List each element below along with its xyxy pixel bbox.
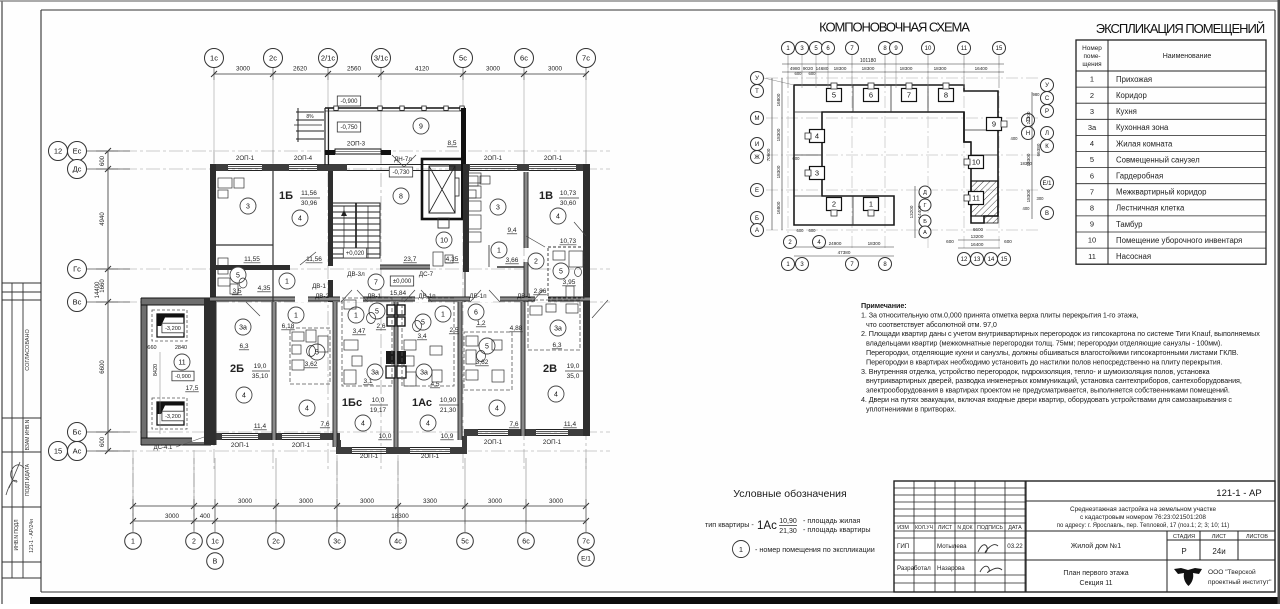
grid bubble 7с bottom (585, 513, 587, 532)
left stamp strip (2, 283, 41, 578)
svg-text:11: 11 (1088, 252, 1096, 261)
svg-text:Р: Р (1181, 547, 1186, 556)
tank 1 (152, 310, 187, 341)
grid axis lines (100, 150, 610, 530)
svg-text:03.22: 03.22 (1007, 543, 1023, 550)
mid wall Вс (horizontal) (210, 297, 340, 301)
table row 3 Кухня (1076, 118, 1266, 120)
svg-text:- площадь квартиры: - площадь квартиры (803, 525, 871, 534)
svg-text:Примечание:: Примечание: (861, 301, 907, 310)
svg-text:2В: 2В (543, 363, 557, 375)
bubble В (1041, 207, 1054, 220)
svg-text:13: 13 (974, 257, 981, 263)
room circle 5 (369, 303, 385, 319)
svg-text:Д: Д (923, 190, 927, 196)
svg-text:8: 8 (399, 194, 403, 201)
svg-text:5: 5 (832, 91, 836, 100)
svg-text:1: 1 (869, 200, 873, 209)
svg-text:1с: 1с (211, 539, 219, 546)
svg-text:3/1с: 3/1с (374, 54, 388, 63)
grid bubble 2с bottom (275, 513, 277, 532)
bubble 8 (879, 258, 892, 271)
bubble 1 (782, 258, 795, 271)
svg-text:ДАТА: ДАТА (1008, 525, 1022, 531)
svg-text:6: 6 (1090, 171, 1094, 180)
grid bubble 1с bottom (214, 513, 216, 532)
svg-text:Е: Е (755, 188, 759, 194)
bubble 14 (985, 253, 998, 266)
svg-text:9: 9 (992, 120, 996, 129)
svg-text:Ж: Ж (754, 155, 760, 161)
svg-text:18300: 18300 (776, 128, 781, 141)
table row 1 Прихожая (1076, 86, 1266, 88)
bubble С (1041, 92, 1054, 105)
svg-text:660: 660 (147, 345, 156, 351)
bubble 6 (822, 42, 835, 55)
level box -3,200 (lower) (162, 411, 184, 421)
bubble Б (751, 212, 764, 225)
bubble 4 (813, 236, 826, 249)
svg-text:2ОП-1: 2ОП-1 (544, 155, 563, 162)
table row 9 Тамбур (1076, 231, 1266, 233)
bubble 7 (846, 258, 859, 271)
grid bubble 5с top (454, 49, 473, 68)
svg-text:10,73: 10,73 (560, 238, 577, 245)
svg-text:Р: Р (1045, 109, 1049, 115)
bubble Е/1 (578, 550, 595, 567)
svg-text:3,95: 3,95 (563, 279, 576, 286)
bubble 1 (782, 42, 795, 55)
tank 2 (152, 398, 187, 429)
room circle 3 (490, 199, 506, 215)
svg-text:4: 4 (305, 406, 309, 413)
bubble Е/1 (1041, 177, 1054, 190)
svg-text:А: А (923, 230, 927, 236)
svg-text:15,84: 15,84 (390, 290, 407, 297)
table row 6 Гардеробная (1076, 183, 1266, 185)
left dimension chains (95, 148, 118, 454)
svg-text:10,0: 10,0 (379, 433, 392, 440)
svg-text:ПОДП.ИДАТА: ПОДП.ИДАТА (25, 463, 31, 496)
party wall at 3с (333, 302, 337, 447)
key plan section 2 (827, 198, 842, 211)
svg-text:1: 1 (497, 248, 501, 255)
svg-text:Гардеробная: Гардеробная (1116, 171, 1163, 180)
svg-text:2ОП-4: 2ОП-4 (294, 155, 313, 162)
svg-text:ЛИСТ: ЛИСТ (1212, 534, 1227, 540)
svg-text:18300: 18300 (776, 165, 781, 178)
key plan inner lines (794, 85, 998, 225)
svg-text:2ОП-1: 2ОП-1 (292, 442, 311, 449)
svg-text:Кухонная зона: Кухонная зона (1116, 123, 1169, 132)
elevator shaft (422, 159, 464, 219)
bubble И (751, 138, 764, 151)
svg-text:4: 4 (495, 406, 499, 413)
svg-text:18300: 18300 (391, 513, 409, 520)
svg-text:А: А (755, 228, 759, 234)
grid bubble 3с bottom (336, 513, 338, 532)
svg-text:17,5: 17,5 (186, 385, 199, 392)
top dimension chain (211, 66, 589, 164)
level box -0.900 (337, 96, 360, 106)
svg-text:ИЗМ: ИЗМ (897, 525, 909, 531)
svg-text:2ОП-1: 2ОП-1 (484, 155, 503, 162)
grid bubble 4с bottom (397, 513, 399, 532)
room circle 4 (355, 415, 371, 431)
duct/stove blocks at party wall 1Бс/1Ас (386, 305, 406, 378)
door swing lines (246, 222, 608, 318)
svg-text:14400: 14400 (95, 281, 101, 298)
room circle 3а (235, 319, 251, 335)
party wall apt3/1В (524, 172, 528, 248)
key plan section 6 (864, 89, 879, 102)
svg-text:ЭКСПЛИКАЦИЯ ПОМЕЩЕНИЙ: ЭКСПЛИКАЦИЯ ПОМЕЩЕНИЙ (1096, 21, 1265, 36)
level box -3,200 (upper) (162, 323, 184, 333)
grid bubble 6с bottom (525, 513, 527, 532)
svg-text:Кухня: Кухня (1116, 107, 1137, 116)
interior partition walls (210, 164, 590, 447)
svg-text:Н: Н (1026, 131, 1030, 137)
svg-text:47380: 47380 (838, 250, 851, 255)
svg-text:М: М (755, 116, 760, 122)
svg-text:8%: 8% (306, 114, 314, 120)
svg-text:6600: 6600 (100, 360, 106, 374)
svg-text:3с: 3с (333, 539, 341, 546)
party wall 1Бс/1Ас (394, 302, 398, 447)
room circle 5 (415, 314, 431, 330)
svg-text:±0,000: ±0,000 (393, 279, 412, 285)
svg-text:7: 7 (374, 280, 378, 287)
svg-text:2/1с: 2/1с (321, 54, 335, 63)
svg-text:-0,900: -0,900 (340, 99, 358, 105)
svg-text:3000: 3000 (488, 498, 503, 505)
small ticks on sections (805, 83, 1007, 216)
svg-text:5: 5 (1090, 155, 1094, 164)
svg-text:5с: 5с (459, 54, 467, 63)
table row 2 Коридор (1076, 102, 1266, 104)
svg-text:4,35: 4,35 (446, 256, 459, 263)
left annex block (pump room) (141, 298, 211, 451)
tambour south wall with window 2ОП-3 (325, 150, 335, 155)
svg-text:3000: 3000 (360, 498, 375, 505)
bubble А (751, 224, 764, 237)
bubble 13 (971, 253, 984, 266)
svg-text:Перегородки, отделяющие кухни: Перегородки, отделяющие кухни и санузлы,… (866, 348, 1239, 357)
room circle 3а (367, 364, 383, 380)
svg-text:-3,200: -3,200 (165, 326, 181, 332)
bubble 5 (810, 42, 823, 55)
svg-text:7с: 7с (582, 54, 590, 63)
svg-text:19,0: 19,0 (567, 363, 580, 370)
wall right of stair hall (463, 164, 469, 272)
svg-text:10: 10 (1088, 236, 1096, 245)
svg-text:101180: 101180 (860, 58, 877, 64)
room circle 4 (548, 386, 564, 402)
svg-text:1Ас: 1Ас (757, 520, 777, 532)
right part (1026, 501, 1275, 592)
svg-text:2ОП-1: 2ОП-1 (236, 155, 255, 162)
key plan left dim chain (771, 78, 773, 230)
key plan section 9 (987, 118, 1002, 131)
grid bubble 1 bottom (132, 513, 134, 532)
top exterior wall with windows (210, 164, 590, 166)
svg-text:Прихожая: Прихожая (1116, 75, 1152, 84)
bubble У (1041, 79, 1054, 92)
svg-text:- номер помещения по экспликац: - номер помещения по экспликации (755, 545, 875, 554)
key plan section 4 (810, 130, 825, 143)
svg-text:3000: 3000 (165, 513, 180, 520)
svg-text:Среднеэтажная застройка на зем: Среднеэтажная застройка на земельном уча… (1070, 505, 1216, 513)
svg-text:2: 2 (534, 259, 538, 266)
key plan section 5 (827, 89, 842, 102)
svg-text:ДВ-3л: ДВ-3л (347, 271, 365, 278)
room circle 5 (309, 344, 325, 360)
svg-text:8420: 8420 (153, 364, 159, 376)
level box -0.750 (337, 122, 360, 132)
svg-text:-3,200: -3,200 (165, 414, 181, 420)
svg-text:Назарова: Назарова (937, 565, 965, 572)
1Б interior walls (216, 244, 273, 246)
room circle 4 (292, 210, 308, 226)
svg-text:2. Площади квартир даны с учет: 2. Площади квартир даны с учетом внутрик… (861, 329, 1260, 338)
svg-text:18300: 18300 (900, 66, 913, 71)
svg-text:18300: 18300 (934, 66, 947, 71)
svg-text:3,4: 3,4 (417, 333, 426, 340)
svg-text:3: 3 (496, 205, 500, 212)
svg-text:внутриквартирных дверей, разво: внутриквартирных дверей, разводка инжене… (866, 376, 1242, 385)
title block (894, 481, 1275, 592)
svg-text:2,6: 2,6 (376, 323, 385, 330)
key plan bottom dims (794, 246, 894, 248)
svg-text:3000: 3000 (236, 66, 251, 73)
tambour left wall (324, 108, 326, 165)
svg-text:С: С (1045, 96, 1050, 102)
svg-text:В: В (1045, 211, 1049, 217)
svg-text:Совмещенный санузел: Совмещенный санузел (1116, 155, 1200, 164)
bubble 3 (796, 42, 809, 55)
svg-text:Л: Л (1045, 131, 1049, 137)
exterior walls (204, 164, 590, 454)
svg-text:Номер: Номер (1082, 45, 1102, 52)
table row 4 Жилая комната (1076, 151, 1266, 153)
level box -0,900 (172, 371, 194, 381)
plumbing/kitchen fixtures (218, 173, 583, 386)
svg-text:600: 600 (946, 239, 954, 244)
svg-text:600: 600 (809, 71, 817, 76)
svg-text:600: 600 (793, 156, 801, 161)
landing level box +0.020 (343, 248, 366, 258)
svg-text:4,88: 4,88 (510, 325, 523, 332)
svg-text:Т: Т (755, 89, 759, 95)
party wall at 6с (521, 302, 525, 436)
table row 7 Межквартирный коридор (1076, 199, 1266, 201)
svg-text:10,90: 10,90 (779, 518, 797, 525)
svg-text:2: 2 (1090, 91, 1094, 100)
svg-text:уплотнениями в притворах.: уплотнениями в притворах. (866, 404, 956, 413)
svg-text:19,17: 19,17 (370, 407, 387, 414)
svg-text:+0,020: +0,020 (346, 251, 365, 257)
svg-text:16800: 16800 (776, 201, 781, 214)
right exterior wall (583, 164, 590, 436)
svg-text:2ОП-1: 2ОП-1 (231, 442, 250, 449)
svg-text:с кадастровым номером 76:23:02: с кадастровым номером 76:23:021501:208 (1080, 514, 1206, 521)
svg-text:Бс: Бс (73, 428, 82, 437)
svg-text:3,66: 3,66 (506, 257, 519, 264)
svg-text:400: 400 (200, 513, 211, 520)
svg-text:300: 300 (1037, 196, 1045, 201)
svg-text:ГИП: ГИП (897, 543, 909, 550)
svg-text:по адресу: г. Ярославль, пер.: по адресу: г. Ярославль, пер. Тепловой, … (1057, 522, 1230, 529)
svg-text:3а: 3а (420, 370, 428, 377)
bottom exterior wall right part (464, 429, 590, 431)
svg-text:3а: 3а (371, 370, 379, 377)
svg-text:15: 15 (1001, 257, 1008, 263)
svg-text:8: 8 (1090, 203, 1094, 212)
svg-text:3: 3 (246, 204, 250, 211)
svg-text:6,3: 6,3 (239, 343, 248, 350)
room circle 1 (279, 273, 295, 289)
bubble П (1022, 114, 1035, 127)
room circle 4 (550, 208, 566, 224)
grid bubble 1с top (205, 49, 224, 68)
entrance tambour block (294, 96, 466, 218)
key plan courtyard bubbles Д Г Б А (919, 186, 931, 198)
svg-text:11,4: 11,4 (564, 421, 577, 428)
svg-text:30,96: 30,96 (301, 200, 318, 207)
corridor door gaps (295, 296, 308, 302)
svg-text:Жилой дом №1: Жилой дом №1 (1071, 542, 1122, 550)
svg-text:18300: 18300 (1026, 189, 1031, 202)
svg-text:18300: 18300 (868, 241, 881, 246)
svg-text:3. Внутренняя отделка, устройс: 3. Внутренняя отделка, устройство перего… (861, 367, 1210, 376)
svg-text:3300: 3300 (423, 498, 438, 505)
table row 8 Лестничная клетка (1076, 215, 1266, 217)
svg-text:11: 11 (961, 46, 968, 52)
notes block (861, 301, 1260, 413)
svg-text:ДВ-2: ДВ-2 (315, 293, 329, 300)
room circle 11 (174, 354, 190, 370)
svg-text:1Бс: 1Бс (342, 397, 362, 409)
bubble К (1041, 140, 1054, 153)
bubble 15 (993, 42, 1006, 55)
svg-text:2ОП-1: 2ОП-1 (543, 439, 562, 446)
svg-text:7,6: 7,6 (320, 421, 329, 428)
bubble 8 (879, 42, 892, 55)
svg-text:ДВ-1: ДВ-1 (517, 293, 531, 300)
svg-text:4: 4 (242, 393, 246, 400)
room circle 2 (528, 253, 544, 269)
grid bubble 3/1с top (372, 49, 391, 68)
svg-text:24и: 24и (1212, 547, 1225, 556)
room circle 10 (436, 232, 452, 248)
svg-text:1. За относительную отм.0,000: 1. За относительную отм.0,000 принята от… (861, 310, 1138, 319)
svg-text:поме-: поме- (1083, 53, 1100, 60)
annex hatched walls (141, 298, 211, 305)
room circle 1 (348, 307, 364, 323)
stamp signature (6, 462, 24, 495)
room circle 9 (tambour) (413, 118, 429, 134)
bottom sheet shadow bar (30, 597, 1280, 604)
svg-text:3,47: 3,47 (353, 328, 366, 335)
svg-text:Ес: Ес (73, 147, 82, 156)
bubble Л (1041, 127, 1054, 140)
svg-text:10,90: 10,90 (440, 397, 457, 404)
svg-text:ДВ-1: ДВ-1 (312, 283, 326, 290)
svg-text:тип квартиры -: тип квартиры - (705, 520, 754, 529)
svg-text:5с: 5с (461, 539, 469, 546)
party wall 1Б/stair (328, 171, 333, 266)
room circle 5 (553, 263, 569, 279)
svg-text:Е/1: Е/1 (581, 555, 591, 562)
bubble В (207, 553, 224, 570)
svg-text:12: 12 (54, 147, 62, 156)
svg-text:4: 4 (554, 392, 558, 399)
svg-text:1: 1 (131, 539, 135, 546)
svg-text:Коридор: Коридор (1116, 91, 1147, 100)
room circle 3а (416, 364, 432, 380)
svg-text:-0,750: -0,750 (340, 125, 358, 131)
room circle 5 (230, 267, 246, 283)
svg-text:Помещение уборочного инвентаря: Помещение уборочного инвентаря (1116, 236, 1242, 245)
bubble У (751, 72, 764, 85)
svg-text:К: К (1045, 144, 1049, 150)
room circle 3а (550, 320, 566, 336)
svg-text:Вс: Вс (73, 298, 82, 307)
floor plan group (49, 49, 611, 570)
extension lines (132, 458, 134, 524)
svg-text:13200: 13200 (909, 205, 914, 218)
left grid bubbles (49, 142, 68, 161)
grid bubble 2с top (264, 49, 283, 68)
svg-text:30,60: 30,60 (560, 200, 577, 207)
svg-text:ДВ-1: ДВ-1 (367, 293, 381, 300)
svg-text:3а: 3а (554, 326, 562, 333)
svg-text:15: 15 (54, 447, 62, 456)
svg-text:2ОП-1: 2ОП-1 (484, 439, 503, 446)
svg-text:18300: 18300 (834, 66, 847, 71)
table row 5 Совмещенный санузел (1076, 167, 1266, 169)
svg-text:- площадь жилая: - площадь жилая (803, 516, 860, 525)
svg-text:600: 600 (100, 436, 106, 447)
room circle 1 (435, 306, 451, 322)
table row 10 Помещение уборочного инвентаря (1076, 247, 1266, 249)
svg-text:10: 10 (972, 158, 980, 167)
key plan right dim chain (1031, 92, 1033, 219)
svg-text:ДВ-1п: ДВ-1п (469, 293, 486, 300)
svg-text:6: 6 (869, 91, 873, 100)
svg-text:8,5: 8,5 (447, 140, 456, 147)
svg-text:ЛИСТОВ: ЛИСТОВ (1246, 534, 1268, 540)
svg-text:СОГЛАСОВАНО: СОГЛАСОВАНО (25, 329, 31, 371)
bottom exterior wall bay part (336, 447, 467, 449)
svg-text:1: 1 (285, 279, 289, 286)
svg-text:2с: 2с (272, 539, 280, 546)
entrance ramp (296, 111, 324, 113)
svg-text:План первого этажа: План первого этажа (1063, 570, 1128, 577)
svg-text:Б: Б (923, 219, 927, 225)
svg-text:6с: 6с (522, 539, 530, 546)
svg-text:11,4: 11,4 (254, 423, 267, 430)
svg-text:21,30: 21,30 (440, 407, 457, 414)
svg-text:6: 6 (474, 310, 478, 317)
bottom exterior wall left part (204, 433, 340, 435)
svg-text:3000: 3000 (486, 66, 501, 73)
dashed partitions (gypsum) (290, 298, 580, 390)
svg-text:9: 9 (1090, 220, 1094, 229)
svg-text:11,56: 11,56 (301, 190, 317, 197)
svg-text:10: 10 (925, 46, 932, 52)
room circle 1 (491, 242, 507, 258)
